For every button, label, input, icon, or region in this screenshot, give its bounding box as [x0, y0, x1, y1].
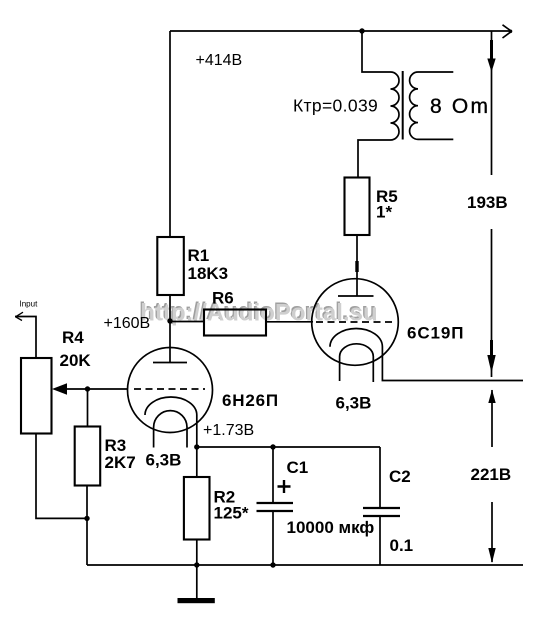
node ground junction dot: [194, 562, 199, 567]
svg-text:6С19П: 6С19П: [407, 324, 464, 343]
capacitor C1: [257, 447, 294, 565]
wire R6 to 6C19P grid: [266, 321, 313, 323]
resistor R2: [184, 447, 210, 598]
svg-text:+414В: +414В: [196, 52, 243, 69]
label C1: [287, 458, 309, 477]
node cathode junction dot +1.73B: [194, 444, 199, 449]
triode U1 6H26P envelope: [128, 348, 213, 433]
svg-text:18K3: 18K3: [188, 264, 229, 283]
svg-text:R4: R4: [62, 328, 84, 347]
wire ground bus: [87, 564, 523, 566]
wire node to R6: [170, 321, 204, 323]
node junction dot top rail / transformer: [359, 28, 364, 33]
cathode 6C19P to output wire: [330, 329, 523, 381]
wire top B+ rail: [170, 30, 511, 32]
wire R4 top to input: [15, 317, 36, 359]
svg-text:6,3В: 6,3В: [146, 451, 182, 470]
label +160B: [104, 315, 151, 332]
measure line 193B: [487, 31, 495, 377]
wire R1 top: [169, 31, 171, 237]
ground: [178, 598, 215, 603]
capacitor C2: [363, 447, 400, 565]
label 6H26P: [222, 391, 279, 410]
svg-text:10000 мкф: 10000 мкф: [287, 518, 375, 537]
node grid junction dot: [85, 386, 90, 391]
transformer core: [402, 71, 404, 140]
grid dashed 6H26P: [134, 388, 205, 390]
svg-text:125*: 125*: [214, 504, 249, 523]
svg-text:R1: R1: [188, 246, 210, 265]
label R6: [212, 289, 234, 308]
arrowhead input: [16, 312, 24, 320]
node R4/R3 junction dot: [84, 516, 89, 521]
label C2: [389, 467, 411, 486]
svg-text:C2: C2: [389, 467, 411, 486]
anode bar 6C19P: [338, 295, 374, 297]
svg-text:R6: R6: [212, 289, 234, 308]
resistor R1: [157, 237, 184, 295]
svg-text:+1.73В: +1.73В: [203, 422, 254, 439]
svg-text:+160В: +160В: [104, 315, 151, 332]
label +1.73B: [203, 422, 254, 439]
heater 6C19P: [340, 344, 374, 382]
label 10000 mkf: [287, 518, 375, 537]
label R4 20K: [60, 328, 92, 370]
measure line 221B: [488, 390, 495, 564]
resistor R6: [204, 310, 266, 336]
node C1 bottom junction dot: [270, 562, 275, 567]
label 221B: [471, 465, 512, 484]
wire grid lead 6H26P to R4 wiper: [67, 388, 128, 390]
potentiometer R4: [21, 358, 52, 434]
label R1 18K3: [188, 246, 229, 283]
svg-text:6,3В: 6,3В: [336, 394, 372, 413]
label Input: [20, 300, 39, 309]
svg-text:20K: 20K: [60, 351, 92, 370]
svg-text:2K7: 2K7: [105, 453, 136, 472]
grid dashed 6C19P: [316, 321, 392, 323]
svg-text:0.1: 0.1: [390, 536, 414, 555]
svg-text:C1: C1: [287, 458, 309, 477]
svg-text:Input: Input: [20, 300, 39, 309]
label R2 125*: [214, 488, 249, 523]
wire R1 bottom to 6H26P plate: [169, 295, 171, 363]
svg-text:221В: 221В: [471, 465, 512, 484]
svg-text:193В: 193В: [467, 193, 508, 212]
heater 6H26P: [154, 411, 187, 448]
wire R3 bottom to ground bus: [86, 486, 88, 566]
svg-text:1*: 1*: [376, 203, 392, 222]
transformer T1 primary: [358, 31, 399, 178]
label R3 2K7: [105, 436, 136, 472]
label 193B: [467, 193, 508, 212]
wire R4 bottom: [36, 434, 87, 519]
label 6,3B left: [146, 451, 182, 470]
triode U2 6C19P envelope: [312, 279, 399, 366]
node +160B junction dot: [167, 318, 172, 323]
svg-text:Ктр=0.039: Ктр=0.039: [293, 96, 378, 116]
cathode 6H26P: [145, 397, 197, 447]
svg-text:6Н26П: 6Н26П: [222, 391, 279, 410]
wiper arrow R4: [52, 383, 67, 395]
label +414B: [196, 52, 243, 69]
anode bar 6H26P: [153, 362, 187, 364]
wire node to C2: [197, 446, 380, 448]
resistor R3: [75, 427, 101, 486]
node C1 junction dot: [270, 444, 275, 449]
polarity plus C1: [278, 480, 291, 493]
watermark AudioPortal: [139, 298, 379, 328]
resistor R5: [345, 178, 370, 236]
label 0.1: [390, 536, 414, 555]
transformer T1 secondary: [410, 72, 454, 139]
label Ktr=0.039: [293, 96, 378, 116]
label 6,3B right: [336, 394, 372, 413]
label 8 Om: [430, 95, 490, 118]
wire R5 bottom to 6C19P plate: [355, 235, 358, 296]
label 6C19P: [407, 324, 464, 343]
svg-text:8 Om: 8 Om: [430, 95, 490, 118]
wire R3 top: [87, 389, 89, 427]
label R5 1*: [376, 187, 398, 222]
arrowhead right end of B+ rail: [503, 25, 513, 38]
